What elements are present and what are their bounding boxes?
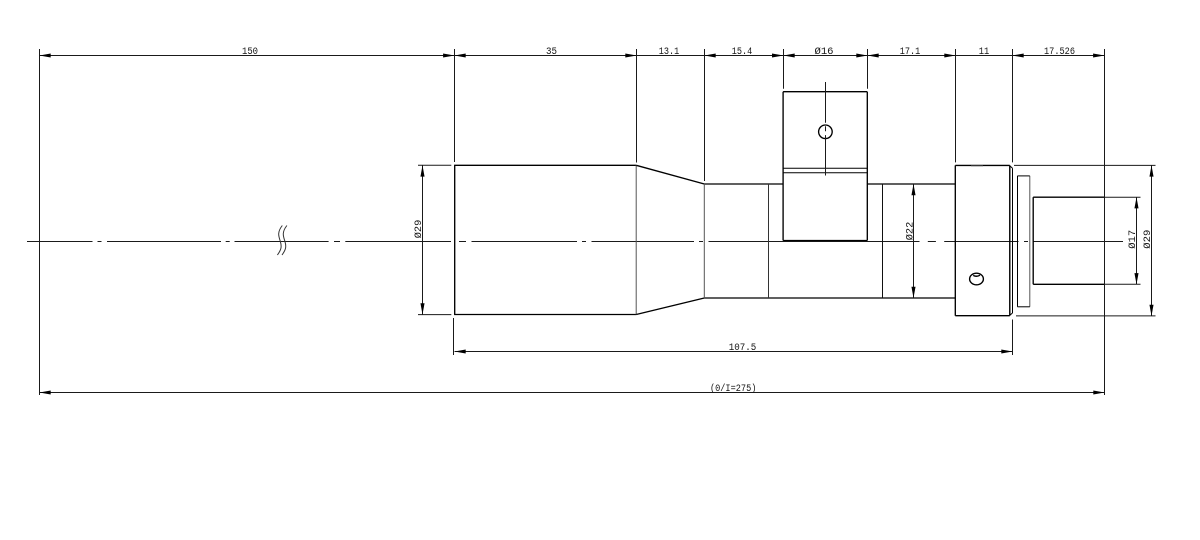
mount block top notch [971,165,983,167]
top dimension arrowheads [40,53,1105,57]
svg-text:17.1: 17.1 [900,46,921,58]
svg-text:Ø29: Ø29 [1142,230,1154,249]
svg-text:(0/I=275): (0/I=275) [710,383,757,395]
dim D29 left: dimension line [422,165,424,314]
knob housing block D16 [783,92,867,241]
body: D22 tube outline [704,184,955,298]
body: cone-end division line [703,184,705,298]
extension line: x=704 (13.1/15.4 boundary) [704,49,706,181]
svg-text:15.4: 15.4 [732,46,753,58]
mount block D29 [955,165,1010,315]
svg-text:13.1: 13.1 [659,46,680,58]
dim D29 right: arrowheads [1149,165,1153,316]
svg-text:17.526: 17.526 [1044,46,1075,58]
dim D17: dimension line [1136,197,1138,284]
flange plate with chamfer [1010,166,1013,315]
extension line: x=1011.1 (11/17.526 boundary) [1012,49,1014,162]
dim (0/I=275) line [40,392,1105,394]
knob center mark [825,82,827,176]
svg-text:Ø22: Ø22 [904,222,916,241]
dim D22: arrowheads [911,184,915,298]
dim D29 left: extension lines [418,165,451,314]
body: tube division line A [768,184,770,298]
dim 107.5 extension line right [1012,320,1014,356]
extension line: x=955.1 (17.1/11 boundary) [955,49,957,162]
dim D22: dimension line [913,184,915,298]
dim 107.5 arrowheads [455,349,1013,353]
svg-text:Ø29: Ø29 [413,220,425,239]
dim D29 right: extension lines [1014,165,1156,316]
dim D17: arrowheads [1134,197,1138,284]
mount screw head [970,273,984,285]
extension line: x=867.3 (16/17.1 boundary) [867,49,869,89]
dim D29 left: arrowheads [420,165,424,314]
dim D29 right: dimension line [1151,165,1153,316]
dim (0/I=275) arrowheads [40,390,1105,394]
break symbol (broken-view squiggle) [277,226,287,256]
top dimension line [40,55,1105,57]
extension line: right end x=1104.8 (shared 17.526 / 275 / barrel face) [1104,49,1106,395]
extension line: left end (x=39.4, shared top 150 / bottom 275) [39,49,41,395]
body: tube division line B [882,184,884,298]
svg-text:Ø16: Ø16 [815,46,834,58]
dim 107.5 line [455,351,1013,353]
body: cone base edge [635,165,637,314]
body: cone taper edges [636,165,704,314]
spacer ring [1017,176,1029,307]
centerline: main horizontal axis [27,241,1123,243]
extension line: x=452.7 (150/35 boundary) [454,49,456,162]
svg-text:150: 150 [242,46,258,58]
barrel D17 [1033,197,1104,284]
knob housing flange double line [783,168,867,173]
dim 107.5 extension line left [453,318,455,355]
knob screw hole [819,125,833,139]
extension line: x=634.8 (35/13.1 boundary) [636,49,638,163]
svg-text:11: 11 [979,46,990,58]
body: main cylinder D29 outline [454,165,636,314]
dim D17: extension lines [1105,197,1141,284]
svg-text:107.5: 107.5 [729,342,757,354]
extension line: x=782.9 (15.4/16 boundary) [783,49,785,89]
svg-text:Ø17: Ø17 [1127,230,1139,249]
svg-text:35: 35 [546,46,557,58]
